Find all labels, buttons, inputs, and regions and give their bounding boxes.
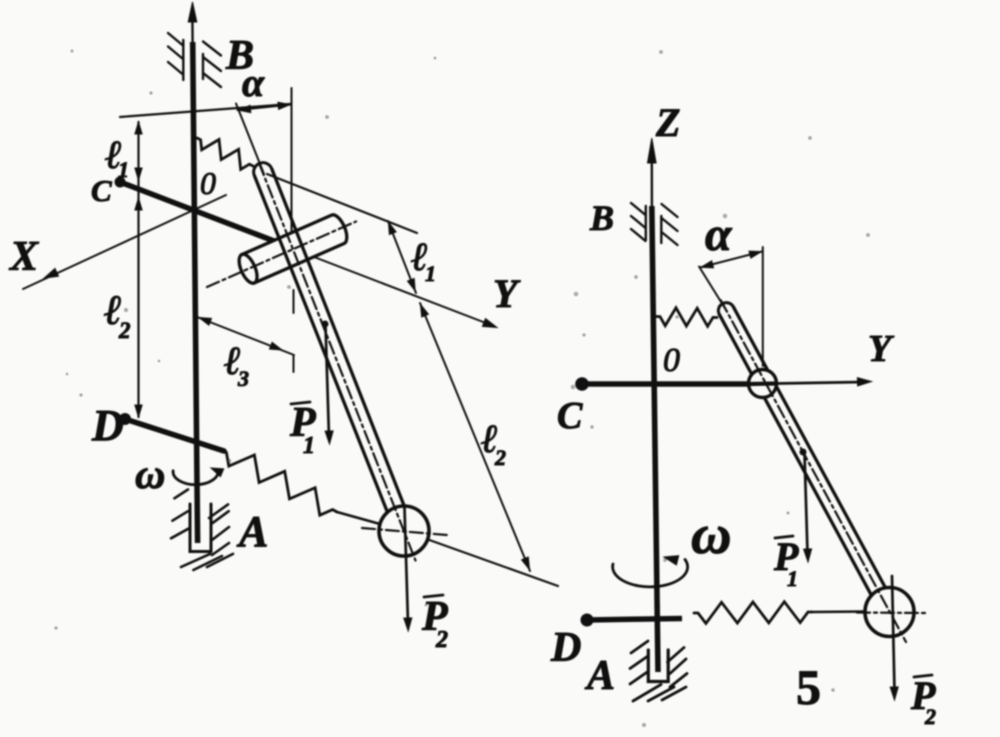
- force P2 arrow (right figure): [892, 576, 895, 691]
- svg-text:2: 2: [924, 704, 936, 729]
- dim arrows l1 left column: [135, 122, 142, 134]
- label P2 (right figure): [914, 675, 932, 677]
- svg-text:1: 1: [425, 261, 436, 286]
- svg-text:1: 1: [787, 566, 798, 591]
- Y axis thin line (right): [777, 382, 865, 384]
- omega rotation arc (right figure): [613, 560, 688, 587]
- X axis arrowhead: [44, 269, 59, 279]
- svg-text:α: α: [705, 208, 733, 261]
- force P1 arrow (right figure): [800, 449, 806, 455]
- rod axis extension line above cap (left): [236, 104, 264, 175]
- svg-text:A: A: [584, 653, 615, 699]
- angle dimension line alpha (right): [700, 252, 762, 268]
- bar D (right figure): [587, 619, 682, 621]
- svg-text:5: 5: [796, 659, 821, 715]
- svg-text:0: 0: [200, 165, 216, 201]
- spring tail line to ball (right): [812, 610, 866, 613]
- rod axis extension above cap (right): [699, 267, 727, 312]
- svg-text:C: C: [91, 173, 112, 208]
- svg-text:A: A: [236, 507, 268, 556]
- rod right edge (left figure): [272, 169, 413, 528]
- point D dot (right): [581, 614, 593, 626]
- sleeve cylinder on X direction (left figure): [242, 215, 347, 283]
- rod dash-dot axis (right figure): [721, 300, 906, 642]
- svg-text:Z: Z: [655, 100, 680, 145]
- svg-text:C: C: [557, 395, 583, 437]
- extension line from rod cap parallel Y (left): [267, 174, 417, 233]
- label P2 (left figure): [424, 595, 443, 597]
- ball horizontal dash-dot (right): [857, 611, 925, 614]
- dim arrows l2 left column: [135, 198, 142, 210]
- label P1 (left figure): [291, 402, 310, 404]
- svg-text:D: D: [550, 625, 581, 671]
- label P1 (right figure): [775, 536, 793, 538]
- bar D along Y (left figure): [125, 419, 224, 451]
- rod dash-dot axis (left figure): [259, 163, 416, 561]
- support B wall hatching (right figure): [645, 206, 647, 240]
- left figure: shaft AB thin upper segment: [191, 18, 194, 42]
- pivot circle at origin (right figure): [749, 370, 777, 398]
- X axis line (left figure): [23, 195, 226, 289]
- support B wall hatching: [182, 40, 184, 80]
- left figure: shaft AB vertical axis arrow head: [188, 2, 197, 22]
- top extension line (left): [120, 104, 290, 117]
- spring D-level to ball (right figure): [694, 602, 812, 624]
- angle dimension line alpha (left): [238, 105, 292, 111]
- ball at rod end (right figure): [865, 588, 914, 637]
- svg-text:ω: ω: [135, 452, 165, 498]
- point D dot (left): [120, 414, 131, 425]
- Z axis arrowhead (right figure): [648, 138, 657, 163]
- left figure: shaft AB thick rod: [193, 42, 198, 543]
- dimension line l2 right (left figure): [420, 303, 530, 571]
- point C dot (left): [115, 177, 125, 187]
- Y line through pivot (right): [750, 381, 776, 386]
- vertical reference line for alpha (right): [762, 247, 764, 366]
- svg-text:Y: Y: [868, 328, 895, 370]
- svg-text:2: 2: [435, 627, 448, 653]
- Y axis arrowhead (right): [857, 378, 871, 386]
- force P1 arrow (left figure): [322, 321, 328, 327]
- rod left edge (left figure): [254, 175, 396, 534]
- shaft AB thick (right figure): [652, 206, 658, 672]
- vertical reference line lower segments (left): [293, 290, 295, 313]
- support A hatching (left figure): [174, 490, 188, 499]
- svg-text:2: 2: [494, 445, 506, 470]
- scan specks (decorative): [326, 116, 329, 119]
- dimension line l1 right (left figure): [388, 221, 416, 293]
- bar C-O along Y (thick, left figure): [120, 182, 286, 246]
- extension line through ball parallel Y (left): [428, 540, 558, 587]
- svg-text:2: 2: [118, 318, 131, 343]
- dimension column line at x=138 (left): [137, 122, 139, 417]
- spring shaft-to-rod (right figure): [656, 308, 717, 327]
- svg-text:B: B: [589, 198, 614, 238]
- Y axis arrowhead (left): [482, 319, 497, 328]
- support A socket (right figure): [648, 650, 668, 682]
- force P2 arrow (left figure): [405, 508, 409, 623]
- sleeve dash-dot axis: [207, 222, 356, 288]
- support A socket (left figure): [190, 504, 211, 552]
- svg-text:D: D: [91, 401, 124, 450]
- ball at rod end (left figure): [379, 506, 429, 556]
- svg-text:α: α: [242, 60, 265, 105]
- spring 1 shaft-to-rod (left figure): [197, 138, 253, 169]
- Y axis thin line (left figure): [305, 254, 491, 326]
- spring 2 shaft-to-ball (left figure): [222, 450, 337, 515]
- dimension line l3 (left figure): [197, 317, 294, 355]
- Y axis thick bar (right figure): [582, 381, 749, 387]
- svg-text:0: 0: [663, 342, 680, 379]
- svg-text:1: 1: [303, 433, 315, 459]
- svg-text:3: 3: [237, 366, 249, 391]
- rod top rounded cap (right figure): [718, 303, 733, 314]
- svg-text:X: X: [8, 234, 39, 280]
- point C dot (right): [576, 378, 589, 391]
- svg-text:ω: ω: [691, 504, 732, 566]
- omega rotation arc (left figure): [173, 470, 218, 484]
- support A hatching (right figure): [631, 641, 648, 653]
- rod top rounded cap (left figure): [254, 163, 272, 176]
- rod left edge (right figure): [719, 314, 883, 616]
- spring 2 tail line to ball (left): [337, 512, 380, 524]
- vertical reference line for alpha (left): [291, 88, 293, 239]
- rod right edge (right figure): [733, 306, 897, 608]
- ball horizontal dash-dot (left): [362, 528, 447, 535]
- Z axis thin segment (right): [651, 158, 654, 206]
- svg-text:Y: Y: [493, 271, 521, 316]
